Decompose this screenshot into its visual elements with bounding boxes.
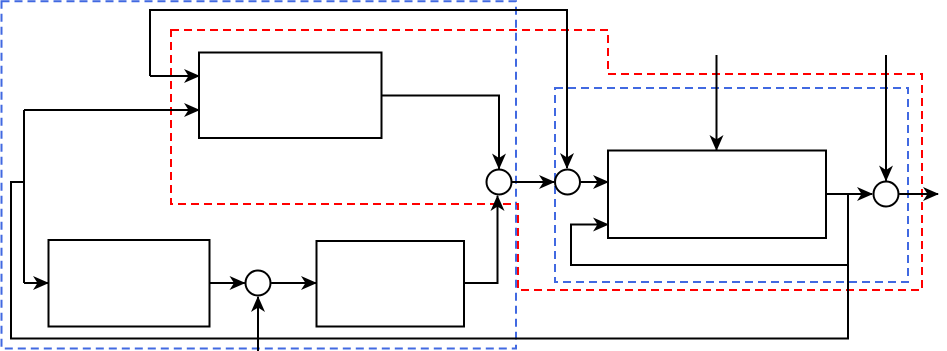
block B1 (top left) (199, 53, 382, 139)
wire: summing junction S1 to summing junction S2 (512, 181, 554, 183)
block B2 (bottom left) (49, 240, 210, 327)
wire: block B3 output up into summing junction S1 bottom (464, 196, 498, 283)
wire into block B1 lower input (24, 109, 199, 111)
wire: external input arrow into summing junction S4 bottom (257, 297, 259, 351)
summing junction S2 (555, 170, 580, 195)
wire: inner feedback from output line into block B4 lower input (571, 225, 848, 266)
block B4 (right plant) (608, 151, 826, 239)
block B3 (bottom middle) (317, 241, 465, 327)
summing junction S3 (874, 182, 899, 207)
blue dashed boundary box (left subsystem) (2, 1, 517, 348)
wire: block B4 output into summing junction S3 (826, 193, 872, 195)
wire: summing junction S4 to block B3 input (272, 282, 317, 284)
wire: block B1 output down into summing junction S1 top (381, 96, 499, 169)
wire: external input arrow into block B4 top (716, 55, 718, 150)
wire: top branch to summing junction S2 (150, 10, 567, 168)
wire: system output arrow (900, 193, 939, 195)
blue dashed boundary box (right subsystem) (555, 88, 908, 282)
wire: left branch vertical joining B1 lower input and B2 input (23, 110, 25, 283)
red dashed boundary (stepped polygon) (171, 30, 922, 290)
wire: summing junction S2 to block B4 upper input (581, 181, 608, 183)
wire into block B1 upper input (150, 75, 199, 77)
summing junction S4 (246, 271, 271, 296)
wire: long outer feedback from output line down and across bottom to left branch (11, 182, 848, 339)
wire into block B2 input (24, 282, 48, 284)
wire: external input arrow into summing junction S3 top (885, 55, 887, 181)
summing junction S1 (487, 170, 512, 195)
wire: block B2 output into summing junction S4 (210, 282, 245, 284)
